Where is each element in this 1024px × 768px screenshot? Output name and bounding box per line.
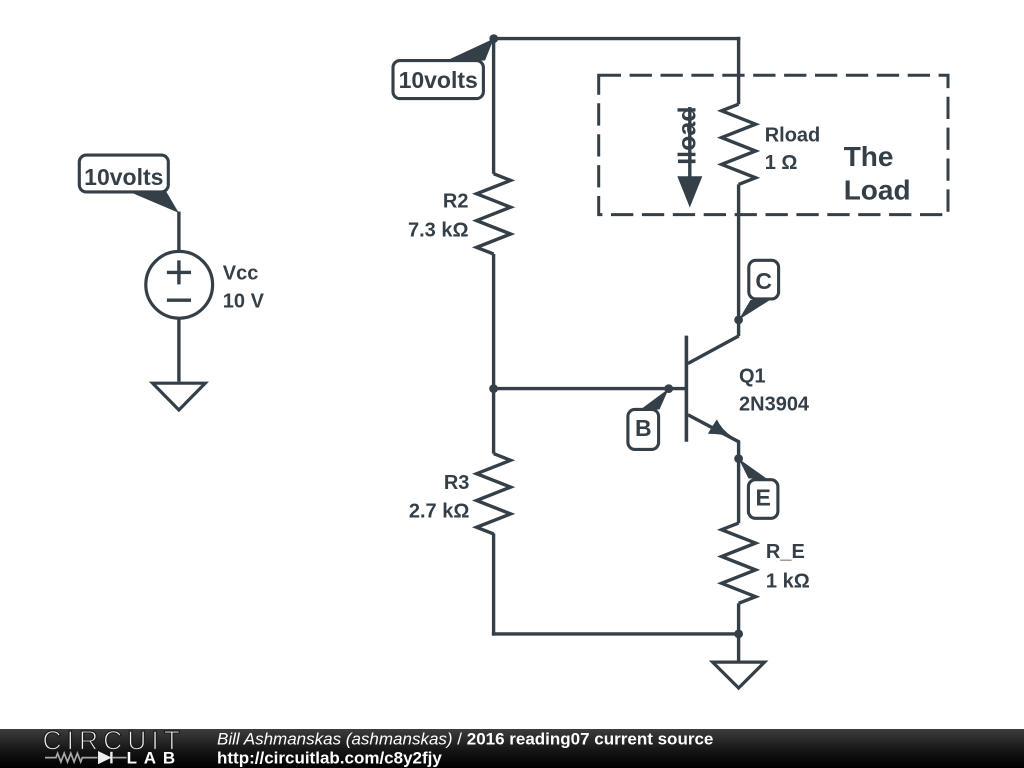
svg-text:2.7 kΩ: 2.7 kΩ — [409, 500, 470, 522]
node label "10volts" (left callout) — [79, 155, 179, 213]
wire: right rail into load box — [737, 37, 740, 104]
dashed box "The Load" — [599, 75, 948, 214]
node dot B — [664, 384, 673, 393]
node label C — [739, 260, 779, 320]
ground (right) — [713, 662, 765, 688]
node dot E — [734, 454, 743, 463]
footer bar — [0, 729, 1024, 768]
svg-text:Rload: Rload — [765, 124, 821, 146]
wire: Vcc bottom lead — [177, 318, 180, 381]
svg-text:10 V: 10 V — [223, 290, 265, 312]
svg-text:C: C — [755, 268, 772, 294]
ground (left) — [153, 383, 206, 410]
svg-text:10volts: 10volts — [84, 164, 163, 190]
node dot (ground net) — [734, 630, 743, 639]
junction dot (base net) — [489, 384, 498, 393]
svg-text:E: E — [756, 485, 771, 511]
wire: Rload to collector — [737, 184, 740, 336]
wire: top rail — [494, 37, 741, 40]
svg-text:10volts: 10volts — [399, 67, 478, 93]
voltage source Vcc — [146, 251, 213, 318]
resistor R3 — [477, 454, 511, 534]
svg-text:B: B — [635, 415, 652, 441]
wire: R3 to bottom rail — [492, 533, 495, 635]
svg-text:Q1: Q1 — [739, 366, 766, 388]
wire: R_E to ground node — [737, 603, 740, 660]
current arrow Iload — [674, 106, 703, 207]
svg-text:Iload: Iload — [674, 106, 702, 164]
wire: bottom rail — [492, 632, 739, 635]
node label B — [628, 389, 669, 450]
wire: base — [494, 387, 687, 390]
resistor R2 — [477, 174, 511, 254]
svg-text:R_E: R_E — [766, 541, 805, 563]
svg-text:Load: Load — [844, 175, 911, 206]
resistor R_E — [722, 523, 756, 603]
resistor Rload — [722, 104, 756, 184]
wire: Vcc top lead — [177, 212, 180, 252]
svg-text:1 Ω: 1 Ω — [765, 152, 798, 174]
svg-text:Vcc: Vcc — [223, 263, 259, 285]
transistor Q1 — [686, 336, 738, 459]
wire: emitter to R_E — [737, 459, 740, 523]
svg-text:7.3 kΩ: 7.3 kΩ — [408, 220, 469, 242]
CircuitLab logo: resistor-diode squiggle — [45, 752, 127, 764]
svg-text:The: The — [844, 141, 894, 172]
svg-text:LAB: LAB — [127, 749, 182, 768]
svg-text:Bill Ashmanskas (ashmanskas) /: Bill Ashmanskas (ashmanskas) / 2016 read… — [217, 729, 713, 748]
svg-text:http://circuitlab.com/c8y2fjy: http://circuitlab.com/c8y2fjy — [217, 749, 442, 768]
node dot C — [734, 316, 743, 325]
wire: left rail to R2 — [492, 39, 495, 174]
svg-text:R3: R3 — [444, 472, 470, 494]
wire: R2 to R3 (left rail) — [492, 254, 495, 454]
svg-text:2N3904: 2N3904 — [739, 394, 810, 416]
svg-text:1 kΩ: 1 kΩ — [766, 571, 810, 593]
node label "10volts" (top callout) — [393, 39, 494, 99]
node label E — [739, 459, 778, 519]
node dot (10volts net, top) — [489, 34, 498, 43]
svg-text:R2: R2 — [443, 191, 469, 213]
